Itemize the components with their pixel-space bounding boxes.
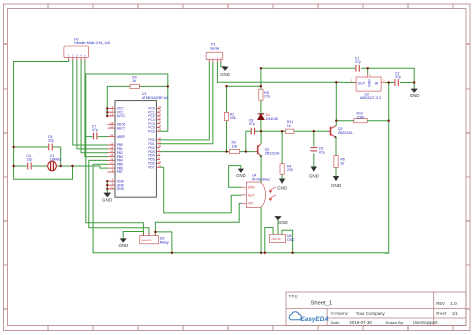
svg-text:F: F [5, 219, 7, 223]
svg-text:1k: 1k [132, 79, 136, 83]
svg-text:PB7: PB7 [117, 170, 123, 174]
svg-text:ADC7: ADC7 [117, 126, 126, 130]
svg-text:47p: 47p [355, 60, 361, 64]
svg-text:Date:: Date: [331, 320, 341, 325]
svg-text:100k: 100k [357, 115, 365, 119]
svg-text:220: 220 [287, 168, 293, 172]
svg-text:UserSupport: UserSupport [413, 320, 438, 325]
svg-text:AREF: AREF [117, 135, 126, 139]
svg-text:D: D [4, 131, 6, 135]
svg-text:Relay: Relay [160, 240, 169, 244]
svg-text:GND: GND [236, 173, 246, 178]
svg-text:GND: GND [277, 185, 288, 190]
svg-text:27k: 27k [264, 95, 270, 99]
svg-text:2019-07-30: 2019-07-30 [349, 320, 372, 325]
svg-text:2k: 2k [340, 161, 344, 165]
svg-text:16MHZ: 16MHZ [50, 158, 62, 162]
svg-text:B: B [467, 42, 469, 46]
svg-text:F: F [467, 219, 469, 223]
svg-text:2N2222A: 2N2222A [265, 151, 280, 155]
svg-text:REV: REV [436, 301, 445, 306]
svg-text:PD7: PD7 [148, 165, 154, 169]
svg-text:1/1: 1/1 [452, 311, 458, 316]
svg-text:GND: GND [410, 93, 420, 98]
svg-text:B: B [5, 42, 7, 46]
svg-text:22p: 22p [27, 158, 33, 162]
svg-text:2N2222A: 2N2222A [338, 131, 353, 135]
svg-text:GND: GND [368, 79, 372, 87]
svg-text:1.0: 1.0 [450, 301, 457, 306]
svg-text:+5V: +5V [248, 202, 255, 206]
svg-text:GND: GND [278, 220, 288, 225]
svg-text:IN: IN [375, 81, 379, 85]
svg-text:OUT: OUT [358, 81, 366, 85]
svg-text:IR Receiver: IR Receiver [252, 177, 271, 181]
svg-text:AMS1117-3.3: AMS1117-3.3 [360, 96, 381, 100]
svg-text:Header-Male-2.54_1x5: Header-Male-2.54_1x5 [74, 41, 110, 45]
svg-text:Drawn By:: Drawn By: [386, 320, 404, 325]
svg-text:10k: 10k [232, 144, 238, 148]
svg-text:H: H [467, 307, 469, 311]
svg-text:Serial: Serial [210, 46, 219, 50]
svg-text:GND: GND [309, 173, 320, 178]
svg-text:EasyEDA: EasyEDA [301, 316, 330, 323]
svg-text:GND: GND [119, 243, 129, 248]
svg-text:Sheet_1: Sheet_1 [311, 301, 333, 307]
svg-text:OUT: OUT [248, 193, 255, 197]
svg-text:Company:: Company: [331, 311, 349, 316]
svg-text:47p: 47p [395, 75, 401, 79]
svg-text:ATMEGA328P-AU: ATMEGA328P-AU [142, 96, 169, 100]
svg-text:20k: 20k [230, 116, 236, 120]
svg-text:OSC: OSC [287, 238, 295, 242]
svg-text:H: H [4, 307, 6, 311]
svg-text:GND: GND [102, 197, 113, 202]
svg-text:GND: GND [248, 185, 256, 189]
svg-text:47p: 47p [319, 150, 325, 154]
svg-text:47p: 47p [92, 128, 98, 132]
svg-text:GND: GND [220, 72, 230, 77]
svg-text:PC6: PC6 [148, 129, 154, 133]
svg-text:RELAY-5V: RELAY-5V [142, 239, 153, 242]
svg-text:AVCC: AVCC [117, 114, 126, 118]
svg-text:GND: GND [117, 187, 125, 191]
svg-text:47p: 47p [249, 122, 255, 126]
svg-text:Your Company: Your Company [356, 311, 386, 316]
svg-text:D: D [467, 131, 469, 135]
svg-text:XTAL-3P: XTAL-3P [271, 238, 281, 241]
svg-text:22p: 22p [48, 139, 54, 143]
svg-text:Sheet:: Sheet: [436, 311, 448, 316]
svg-text:TITLE:: TITLE: [289, 295, 299, 299]
svg-text:GND: GND [331, 183, 342, 188]
svg-text:1N4148: 1N4148 [266, 117, 278, 121]
svg-text:1k: 1k [287, 124, 291, 128]
